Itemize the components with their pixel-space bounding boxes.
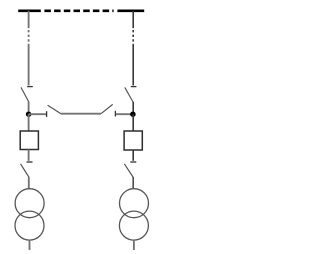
disconnect switch S6 fixed contact tick (130, 161, 136, 163)
wire: left feeder solid down to switch S1 (28, 44, 30, 86)
wire: left feeder drop from busbar (solid) (28, 11, 30, 28)
tie switch S4 fixed contact tick (right) (114, 111, 116, 117)
circuit breaker K2 (square box) (124, 131, 142, 150)
wire: tie from right tie contact to node B (116, 113, 133, 115)
wire: left feeder dash-dot continuation segment (28, 30, 30, 44)
wire: S1 hinge down to node A (28, 102, 30, 114)
disconnect switch S6 blade (open) (124, 164, 133, 177)
wire: tie from node A to left tie contact (29, 113, 46, 115)
wire: K2 down to switch S6 (132, 150, 134, 161)
transformer T1 secondary winding (lower circle) (15, 211, 44, 240)
tie switch S3 fixed contact tick (left) (46, 111, 48, 117)
transformer T1 primary winding (upper circle) (15, 189, 44, 218)
busbar dashed continuation between B1 and B2 (44, 9, 113, 12)
wire: K1 down to switch S5 (28, 150, 30, 161)
wire: node A down to breaker K1 (28, 114, 30, 131)
wire: right feeder dash-dot continuation segment (132, 30, 134, 44)
disconnect switch S2 fixed contact tick (131, 86, 137, 88)
wire: S2 hinge down to node B (132, 102, 134, 114)
wire: S6 hinge down to transformer T2 (132, 177, 134, 189)
wire: T2 secondary stub (133, 240, 135, 250)
wire: right feeder drop from busbar (solid) (132, 11, 134, 28)
busbar B1 (left solid bar) (18, 9, 41, 12)
wire: T1 secondary stub (29, 240, 31, 250)
wire: node B down to breaker K2 (132, 114, 134, 131)
disconnect switch S1 fixed contact tick (27, 86, 33, 88)
transformer T2 primary winding (upper circle) (120, 189, 149, 218)
tie switch S3 blade (open, tips up-left) (48, 105, 61, 114)
circuit breaker K1 (square box) (20, 131, 38, 150)
wire: S5 hinge down to transformer T1 (28, 177, 30, 189)
disconnect switch S2 blade (open) (125, 87, 133, 102)
node B junction dot (right) (130, 111, 136, 117)
wire: right feeder solid down to switch S2 (132, 44, 134, 86)
disconnect switch S5 blade (open) (21, 164, 29, 177)
disconnect switch S1 blade (open) (21, 87, 29, 102)
busbar B2 (right solid bar) (117, 9, 144, 12)
node A junction dot (left) (26, 111, 32, 117)
wire: tie middle section (61, 113, 101, 115)
tie switch S4 blade (open, tips up-right) (101, 104, 113, 113)
disconnect switch S5 fixed contact tick (27, 161, 33, 163)
transformer T2 secondary winding (lower circle) (119, 211, 148, 240)
